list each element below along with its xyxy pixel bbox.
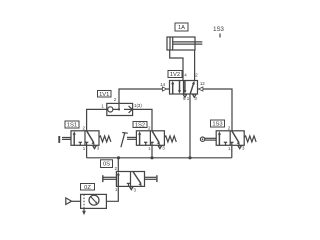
svg-text:3: 3 <box>194 96 197 101</box>
label 0S <box>101 160 113 168</box>
svg-text:1S2: 1S2 <box>135 123 145 129</box>
1V1 port 1 label <box>101 103 104 108</box>
label 1S3 <box>211 120 225 128</box>
wire cylinder cap-end to 1V2 port 4 <box>170 50 183 81</box>
1V2 port 1 label <box>187 96 190 101</box>
label 1V2 <box>168 71 182 79</box>
svg-text:3: 3 <box>134 187 137 192</box>
wire 1V1 port 1 to 1S1 port 2 <box>87 109 107 130</box>
svg-text:1: 1 <box>115 187 118 192</box>
junction dot 1S2 <box>150 156 153 159</box>
svg-text:2: 2 <box>114 97 117 102</box>
0S left manual actuator <box>102 175 116 182</box>
valve 1S1 body (3/2-way) <box>71 126 111 151</box>
service unit 0Z <box>81 194 107 208</box>
1V2 port 4 label <box>184 73 187 78</box>
cylinder 1A <box>167 37 202 50</box>
valve 0S body (3/2-way shut-off) <box>116 172 144 190</box>
svg-text:1V1: 1V1 <box>99 92 109 98</box>
valve 1S3 body (3/2-way) <box>216 126 256 151</box>
1V2 pilot 12 <box>198 81 206 91</box>
wire 1V2 port 1 to supply bus <box>189 94 191 158</box>
svg-text:0Z: 0Z <box>84 185 91 191</box>
wire 1S2 port 1 to supply bus <box>151 145 153 158</box>
wire cylinder rod-end to 1V2 port 2 <box>194 50 196 81</box>
svg-text:3: 3 <box>242 146 245 151</box>
svg-text:1: 1 <box>187 96 190 101</box>
junction dot 1V2 <box>188 156 191 159</box>
valve 1V2 body (5/2-way) <box>170 81 198 95</box>
svg-text:2: 2 <box>228 126 231 131</box>
svg-text:3: 3 <box>97 146 100 151</box>
svg-text:12: 12 <box>200 81 205 86</box>
svg-text:2: 2 <box>148 126 151 131</box>
wire 1S3 port 1 to supply bus <box>231 145 233 158</box>
label 1S1 <box>65 121 79 129</box>
wire 1S1 port 1 to supply bus <box>86 145 88 158</box>
svg-text:1: 1 <box>228 146 231 151</box>
0S right manual actuator <box>145 175 158 182</box>
label 1V1 <box>98 91 112 98</box>
svg-text:14: 14 <box>160 82 165 87</box>
compressed air source <box>66 198 81 205</box>
svg-text:1V2: 1V2 <box>170 72 180 78</box>
svg-text:1: 1 <box>101 103 104 108</box>
svg-text:1S3: 1S3 <box>212 122 222 128</box>
svg-text:1S3: 1S3 <box>213 27 224 33</box>
svg-text:2: 2 <box>115 166 118 171</box>
1V1 port 1(3) label <box>134 103 142 108</box>
1V2 port 2 label <box>195 73 198 78</box>
wire 1V2 pilot 12 to 1S3 port 2 <box>203 89 232 131</box>
label 1A <box>175 23 188 31</box>
0S port 1 label <box>115 187 118 192</box>
wire 0S port 2 to supply bus <box>117 158 119 172</box>
svg-text:2: 2 <box>83 126 86 131</box>
1V1 port 2 label <box>114 97 117 102</box>
wire 1V1 port 2 to 1V2 pilot 14 <box>119 89 162 103</box>
junction dot 0S <box>117 156 120 159</box>
svg-text:3: 3 <box>162 146 165 151</box>
svg-text:1: 1 <box>148 146 151 151</box>
1V2 exhaust port 5 <box>183 94 187 101</box>
label 0Z <box>81 184 95 191</box>
svg-text:1: 1 <box>83 146 86 151</box>
1S3 roller actuator <box>200 137 216 141</box>
valve 1S2 body (3/2-way) <box>136 126 176 151</box>
shuttle valve 1V1 <box>107 103 133 115</box>
wire 0S port 1 to 0Z <box>106 186 118 201</box>
svg-text:4: 4 <box>184 73 187 78</box>
label 1S2 <box>133 122 147 129</box>
0S port 3 label <box>134 187 137 192</box>
1V2 pilot 14 <box>160 82 169 91</box>
svg-text:2: 2 <box>195 73 198 78</box>
svg-text:0S: 0S <box>103 162 110 168</box>
0S port 2 label <box>115 166 118 171</box>
svg-text:1A: 1A <box>178 25 185 31</box>
1S1 pushbutton actuator <box>58 136 71 143</box>
wire 1V1 port 1(3) to 1S2 port 2 <box>133 109 152 130</box>
limit switch position marker 1S3 <box>213 27 224 38</box>
0Z drain <box>82 208 86 215</box>
1V2 exhaust port 3 <box>193 94 198 101</box>
svg-text:1(3): 1(3) <box>134 103 142 108</box>
svg-text:1S1: 1S1 <box>67 123 77 129</box>
1S2 roller lever actuator <box>121 133 136 148</box>
supply bus line <box>87 157 232 159</box>
